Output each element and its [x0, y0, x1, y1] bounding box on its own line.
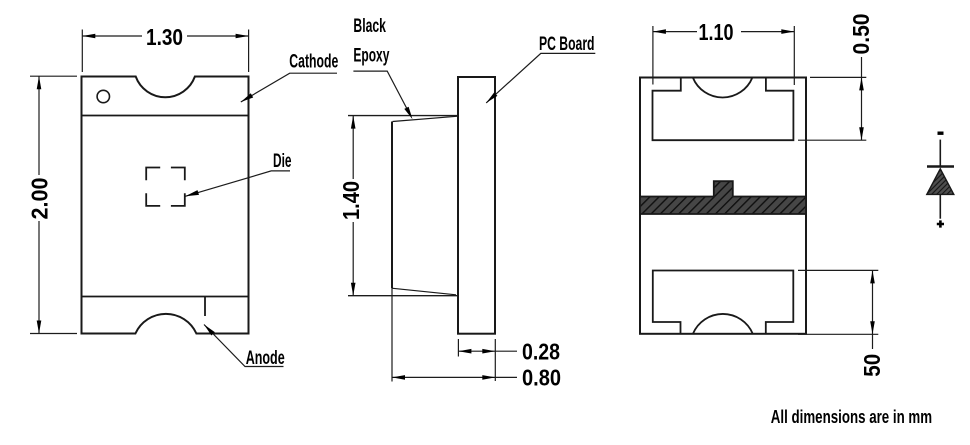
die (dashed square) — [146, 168, 185, 206]
svg-text:PC Board: PC Board — [539, 34, 595, 55]
dimension 0.50 line — [861, 57, 863, 140]
svg-text:All dimensions are in mm: All dimensions are in mm — [771, 407, 932, 427]
svg-text:1.30: 1.30 — [146, 24, 183, 50]
package outline — [640, 78, 806, 334]
0.80 left extension (epoxy edge continued) — [391, 288, 393, 382]
dimension 2.00 line — [38, 76, 40, 175]
cathode pad castellation arc — [693, 78, 753, 98]
dimension 0.50 extensions — [810, 76, 866, 78]
epoxy top edge / 1.40 top extension — [348, 115, 458, 117]
svg-text:2.00: 2.00 — [27, 178, 53, 220]
minus sign — [938, 132, 944, 135]
cathode index circle — [97, 90, 109, 102]
dimension 0.28 extensions — [457, 339, 459, 357]
dimension 1.30 line — [82, 35, 142, 37]
pc board rectangle — [458, 77, 495, 334]
cathode lead — [939, 140, 941, 167]
svg-text:Die: Die — [273, 151, 292, 172]
anode pad — [653, 271, 794, 334]
svg-text:1.40: 1.40 — [338, 181, 364, 220]
svg-text:Black: Black — [353, 16, 386, 37]
dimension 1.10 line — [653, 31, 697, 33]
anode section line — [82, 296, 249, 298]
cathode bar — [927, 165, 954, 167]
dimension 50 line — [872, 270, 874, 349]
svg-text:0.28: 0.28 — [522, 338, 560, 364]
dimension 1.10 extensions — [652, 26, 654, 85]
dimension 0.80 line — [392, 376, 517, 378]
svg-text:Anode: Anode — [246, 348, 285, 369]
cathode pad — [653, 78, 794, 141]
dimension 0.28 line — [458, 350, 517, 352]
svg-text:Cathode: Cathode — [289, 52, 338, 73]
anode notch line — [204, 297, 206, 317]
plus sign — [937, 220, 944, 227]
svg-text:50: 50 — [859, 354, 885, 377]
anode lead — [939, 194, 941, 218]
dimension 50 extensions — [798, 269, 878, 271]
epoxy bottom edge / 1.40 bottom extension — [348, 295, 458, 297]
dimension 1.30 extension lines — [81, 30, 83, 73]
package outline with castellation notches — [82, 77, 249, 334]
anode pad castellation arc — [693, 314, 753, 334]
epoxy top face slant — [393, 116, 459, 121]
svg-text:0.50: 0.50 — [848, 14, 874, 55]
epoxy body left edge — [391, 122, 393, 289]
svg-text:Epoxy: Epoxy — [353, 45, 389, 66]
cathode section line — [82, 115, 249, 117]
svg-text:0.80: 0.80 — [522, 365, 561, 391]
dimension 1.40 line — [352, 116, 354, 179]
svg-text:1.10: 1.10 — [699, 19, 734, 45]
solder band with tab — [640, 181, 806, 214]
dimension 2.00 extension lines — [30, 75, 77, 77]
epoxy bottom face slant — [392, 288, 457, 295]
diode triangle — [927, 169, 954, 195]
